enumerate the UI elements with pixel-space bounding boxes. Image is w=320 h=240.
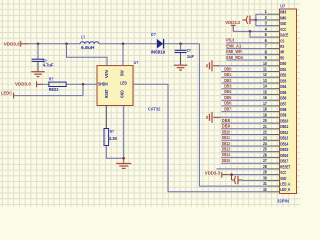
power port VDD3.3 (bottom right) — [205, 170, 228, 177]
svg-text:RD: RD — [280, 55, 284, 60]
U2 pin 27 DB17 — [263, 158, 289, 163]
U2 pin 20 DB10 — [263, 118, 289, 123]
U2 designator — [280, 4, 285, 9]
wire: EMI_A1 to pin 7 — [226, 48, 267, 50]
svg-text:16: 16 — [263, 95, 267, 100]
svg-text:IM0: IM0 — [280, 15, 287, 20]
svg-text:CAT32: CAT32 — [148, 106, 161, 111]
svg-text:EMI_WR: EMI_WR — [226, 49, 242, 54]
svg-text:25: 25 — [263, 147, 267, 152]
U2 pin 10 DB0 — [263, 61, 287, 66]
svg-text:DB5: DB5 — [280, 90, 286, 95]
net label EMI_WR — [226, 49, 242, 54]
svg-text:D&CE: D&CE — [280, 33, 288, 38]
svg-text:LEDC: LEDC — [1, 91, 12, 96]
svg-text:L?: L? — [81, 35, 85, 40]
svg-text:DB2: DB2 — [224, 78, 231, 83]
U2 pin 5 D&CE — [265, 32, 289, 37]
svg-text:13: 13 — [263, 78, 267, 83]
svg-text:SHDN: SHDN — [98, 81, 108, 86]
wire: DB13 to pin 25 — [221, 151, 267, 153]
svg-text:DB3: DB3 — [224, 84, 231, 89]
U2 pin 19 DB9 — [263, 112, 287, 117]
wire: R1 to U1 SHDN — [66, 83, 97, 85]
svg-text:DB17: DB17 — [280, 159, 288, 164]
net label DB12 — [222, 141, 231, 146]
U2 pin 25 DB15 — [263, 147, 289, 152]
junction at ground node — [122, 157, 125, 160]
wire: VDD3.3 to pin 29 VCC — [228, 174, 268, 176]
op-amp/driver IC U1 CAT32 body — [97, 66, 133, 106]
wire: cap to pin 30 GND — [243, 179, 268, 181]
net label LEDC — [1, 91, 14, 99]
U2 pin 12 DB2 — [263, 72, 287, 77]
net label DB6 — [224, 101, 231, 106]
U2 pin 8 WR — [265, 49, 285, 54]
U2 pin 32 LED_K — [263, 187, 290, 192]
U2 pin 6 CS — [265, 38, 285, 43]
svg-text:U?: U? — [280, 4, 285, 9]
svg-text:DB12: DB12 — [280, 130, 288, 135]
svg-text:IN5819: IN5819 — [151, 50, 166, 55]
U1 pin name RSET — [104, 89, 109, 98]
U2 pin 24 DB14 — [263, 141, 289, 146]
svg-text:R?: R? — [110, 129, 115, 134]
svg-text:DB12: DB12 — [222, 141, 231, 146]
capacitor C3 (top right, polarized) — [242, 16, 256, 24]
ground (sideways) at pin 19 — [207, 112, 219, 123]
svg-text:DB1: DB1 — [224, 72, 231, 77]
U2 pin 30 GND — [263, 175, 286, 180]
U2 pin 16 DB6 — [263, 95, 287, 100]
U1 pin name VIN — [104, 70, 109, 78]
wire: DB11 to pin 23 — [221, 139, 267, 141]
U2 pin 9 RD — [265, 55, 285, 60]
svg-text:WR: WR — [280, 50, 284, 55]
svg-text:30: 30 — [263, 175, 267, 180]
capacitor C2 1uF — [175, 44, 195, 65]
svg-text:6.8uH: 6.8uH — [81, 45, 95, 50]
U2 comment 32PIN — [277, 198, 289, 203]
U2 pin 23 DB13 — [263, 135, 289, 140]
wire: ground to pin 10 — [219, 65, 268, 67]
resistor R2 3.3K (vertical) — [104, 129, 117, 146]
svg-text:EMI_RDn: EMI_RDn — [226, 55, 243, 60]
svg-text:29: 29 — [263, 170, 267, 175]
svg-text:DB13: DB13 — [280, 136, 288, 141]
svg-text:VDD3.3: VDD3.3 — [15, 81, 31, 86]
svg-text:U?: U? — [134, 60, 139, 65]
wire: DB9 to pin 21 — [221, 128, 267, 130]
svg-text:R?: R? — [49, 76, 54, 81]
power port VDD3.3 (top right) — [225, 20, 240, 32]
svg-text:24: 24 — [263, 141, 267, 146]
U1 designator — [134, 60, 139, 65]
svg-text:3.3K: 3.3K — [109, 136, 118, 141]
ground below C2 — [174, 65, 188, 70]
U2 pin 31 LED_A — [263, 181, 290, 186]
junction decoupling branch — [230, 173, 233, 176]
net label DB11 — [222, 135, 231, 140]
net label DB5 — [224, 95, 231, 100]
svg-text:DB0: DB0 — [224, 66, 231, 71]
power port VDD3.3 (SHDN divider) — [15, 81, 43, 87]
wire: DB8 to pin 20 — [221, 122, 267, 124]
svg-text:DB4: DB4 — [224, 89, 231, 94]
svg-text:DB13: DB13 — [222, 147, 231, 152]
svg-text:DB6: DB6 — [224, 101, 231, 106]
U2 pin 7 RS — [265, 44, 285, 49]
wire: R2 bottom to ground node — [106, 146, 123, 159]
svg-text:CS: CS — [280, 38, 284, 43]
U2 pin 13 DB3 — [263, 78, 287, 83]
svg-text:P5.3: P5.3 — [226, 38, 235, 43]
wire: DB3 to pin 14 — [221, 88, 267, 90]
svg-text:GND: GND — [119, 90, 124, 98]
wire: pin 28 RESET stub extension — [217, 168, 268, 170]
wire: U1 LED pin to connector pin 32 LED_K — [133, 84, 268, 192]
svg-text:DB10: DB10 — [222, 129, 231, 134]
wire: LEDC to junction — [14, 95, 83, 97]
wire: VOUT rail down to connector pin 31 LED_A — [199, 44, 267, 186]
wire: VDD3.3 rail to inductor — [29, 43, 81, 45]
U2 pin 28 RESET — [263, 164, 291, 169]
wire: DB4 to pin 15 — [221, 93, 267, 95]
wire: bracket tying pins 1-3 — [256, 14, 268, 26]
svg-text:DB8: DB8 — [222, 118, 231, 123]
wire: VDD3.3 to pin 4 VCC — [233, 30, 267, 32]
resistor R1 RES2 (horizontal) — [43, 76, 66, 92]
net label DB14 — [222, 152, 231, 157]
wire: DB6 to pin 17 — [221, 105, 267, 107]
capacitor C4 (bottom right, polarized) — [232, 175, 243, 185]
svg-text:DB9: DB9 — [280, 113, 286, 118]
svg-text:DB16: DB16 — [280, 153, 288, 158]
net label DB15 — [222, 158, 231, 163]
U1 comment CAT32 — [148, 106, 161, 111]
svg-text:10: 10 — [263, 61, 267, 66]
ground below U1 — [116, 158, 131, 168]
svg-text:22: 22 — [263, 130, 267, 135]
svg-text:RSET: RSET — [104, 89, 109, 98]
capacitor C1 4.7uF — [32, 44, 54, 72]
svg-text:VCC: VCC — [280, 170, 286, 175]
svg-text:31: 31 — [263, 181, 267, 186]
svg-text:DB9: DB9 — [222, 124, 231, 129]
svg-text:DB11: DB11 — [280, 124, 289, 129]
svg-text:28: 28 — [263, 164, 267, 169]
svg-text:LED_K: LED_K — [280, 187, 290, 192]
wire: DB1 to pin 12 — [221, 76, 267, 78]
svg-text:DB0: DB0 — [280, 61, 286, 66]
svg-text:DB2: DB2 — [280, 73, 286, 78]
U2 pin 26 DB16 — [263, 152, 289, 157]
connector U2 32PIN body — [280, 9, 297, 194]
wire: DB0 to pin 11 — [221, 71, 267, 73]
net label DB10 — [222, 129, 231, 134]
svg-text:14: 14 — [263, 84, 267, 89]
U2 pin 4 VCC — [265, 26, 287, 31]
svg-text:32PIN: 32PIN — [277, 198, 289, 203]
inductor L1 6.8uH — [80, 35, 99, 50]
net label DB7 — [224, 106, 231, 111]
svg-text:DB3: DB3 — [280, 78, 286, 83]
svg-text:IM3: IM3 — [280, 10, 287, 15]
net label EMI_RDn — [226, 55, 243, 60]
svg-text:12: 12 — [263, 72, 267, 77]
wire: junction down to LEDC row — [82, 84, 84, 95]
U2 pin 14 DB4 — [263, 84, 287, 89]
svg-text:DB11: DB11 — [222, 135, 231, 140]
wire: DB7 to pin 18 — [221, 111, 267, 113]
svg-text:LED_A: LED_A — [280, 182, 290, 187]
svg-text:VDD3.3: VDD3.3 — [205, 170, 221, 175]
junction at VIN tap — [65, 43, 68, 46]
junction at C? tap — [37, 43, 40, 46]
net label EMI_A1 — [226, 43, 242, 48]
junction at output cap — [179, 43, 182, 46]
U2 pin 22 DB12 — [263, 130, 289, 135]
svg-text:27: 27 — [263, 158, 267, 163]
wire: U1 GND pin down — [123, 106, 125, 159]
svg-text:DB7: DB7 — [224, 106, 231, 111]
svg-text:18: 18 — [263, 107, 267, 112]
svg-text:23: 23 — [263, 135, 267, 140]
junction at SW tap — [122, 43, 125, 46]
svg-text:LED: LED — [120, 80, 127, 85]
svg-text:EMI_A1: EMI_A1 — [226, 43, 242, 48]
U2 pin 17 DB7 — [263, 101, 287, 106]
ground (sideways) at pin 10 — [207, 60, 219, 71]
svg-text:GND: GND — [280, 21, 286, 26]
wire: DB2 to pin 13 — [221, 82, 267, 84]
wire: DB5 to pin 16 — [221, 99, 267, 101]
net label DB4 — [224, 89, 231, 94]
net label DB2 — [224, 78, 231, 83]
U2 pin 2 IM0 — [265, 15, 287, 20]
wire: rail junction down to U1 SW — [122, 44, 124, 66]
ground below C1 — [31, 72, 45, 77]
U1 pin name LED — [120, 80, 127, 85]
U1 pin name GND — [119, 90, 124, 98]
wire: branch to pin 5 D&CE — [250, 31, 268, 37]
svg-text:D?: D? — [151, 32, 156, 37]
U2 pin 1 IM3 — [265, 9, 287, 14]
wire: inductor to diode — [99, 43, 157, 45]
svg-text:32: 32 — [263, 187, 267, 192]
net label DB8 — [222, 118, 231, 123]
U2 pin 3 GND — [265, 21, 287, 26]
wire: DB10 to pin 22 — [221, 134, 267, 136]
U1 pin name SHDN — [98, 81, 108, 86]
svg-text:19: 19 — [263, 112, 267, 117]
U2 pin 21 DB11 — [263, 124, 289, 129]
svg-text:4.7uF: 4.7uF — [43, 63, 54, 68]
svg-text:VIN: VIN — [104, 70, 109, 78]
svg-text:SW: SW — [120, 70, 125, 76]
net label DB1 — [224, 72, 231, 77]
svg-text:RES2: RES2 — [49, 87, 59, 92]
wire: diode to output cap — [164, 43, 199, 45]
wire: U1 RSET pin down — [105, 106, 107, 129]
svg-text:DB6: DB6 — [280, 96, 286, 101]
wire: DB14 to pin 26 — [221, 156, 267, 158]
svg-text:26: 26 — [263, 152, 267, 157]
wire: EMI_WR to pin 8 — [226, 53, 267, 55]
svg-text:RS: RS — [280, 44, 284, 49]
wire: EMI_RDn to pin 9 — [226, 59, 267, 61]
U2 pin 11 DB1 — [263, 67, 287, 72]
svg-text:DB8: DB8 — [280, 107, 286, 112]
svg-text:DB14: DB14 — [280, 141, 288, 146]
svg-text:21: 21 — [263, 124, 267, 129]
junction at SHDN/LEDC — [82, 83, 85, 86]
svg-text:GND: GND — [280, 176, 286, 181]
svg-text:C?: C? — [187, 48, 191, 53]
svg-text:17: 17 — [263, 101, 267, 106]
svg-text:20: 20 — [263, 118, 267, 123]
wire: P5.3 to pin 6 — [226, 42, 267, 44]
svg-text:VDD3.3: VDD3.3 — [225, 20, 240, 25]
U2 pin 18 DB8 — [263, 107, 287, 112]
wire: DB12 to pin 24 — [221, 145, 267, 147]
diode D1 IN5819 — [151, 32, 166, 55]
power port VDD3.3 (left rail) — [4, 41, 29, 47]
net label DB3 — [224, 84, 231, 89]
net label P5.3 — [226, 38, 235, 43]
svg-text:RESET: RESET — [280, 164, 290, 169]
U1 pin name SW — [120, 70, 125, 76]
net label DB9 — [222, 124, 231, 129]
junction at GND bracket — [255, 19, 258, 22]
svg-text:DB15: DB15 — [280, 147, 288, 152]
svg-text:1uF: 1uF — [187, 54, 194, 59]
svg-text:DB1: DB1 — [280, 67, 286, 72]
svg-text:VCC: VCC — [280, 27, 286, 32]
svg-text:DB15: DB15 — [222, 158, 231, 163]
junction VCC branch — [249, 30, 252, 33]
svg-text:DB7: DB7 — [280, 101, 286, 106]
wire: rail junction down to U1 VIN — [67, 44, 108, 66]
svg-text:DB5: DB5 — [224, 95, 231, 100]
svg-text:DB10: DB10 — [280, 119, 288, 124]
svg-text:15: 15 — [263, 89, 267, 94]
net label DB13 — [222, 147, 231, 152]
wire: DB15 to pin 27 — [221, 162, 267, 164]
net label DB0 — [224, 66, 231, 71]
svg-text:DB14: DB14 — [222, 152, 231, 157]
svg-text:DB4: DB4 — [280, 84, 286, 89]
U2 pin 15 DB5 — [263, 89, 287, 94]
U2 pin 29 VCC — [263, 170, 286, 175]
svg-text:11: 11 — [263, 67, 267, 72]
svg-text:VDD3.3: VDD3.3 — [4, 42, 20, 47]
wire: ground to pin 19 — [219, 116, 268, 118]
